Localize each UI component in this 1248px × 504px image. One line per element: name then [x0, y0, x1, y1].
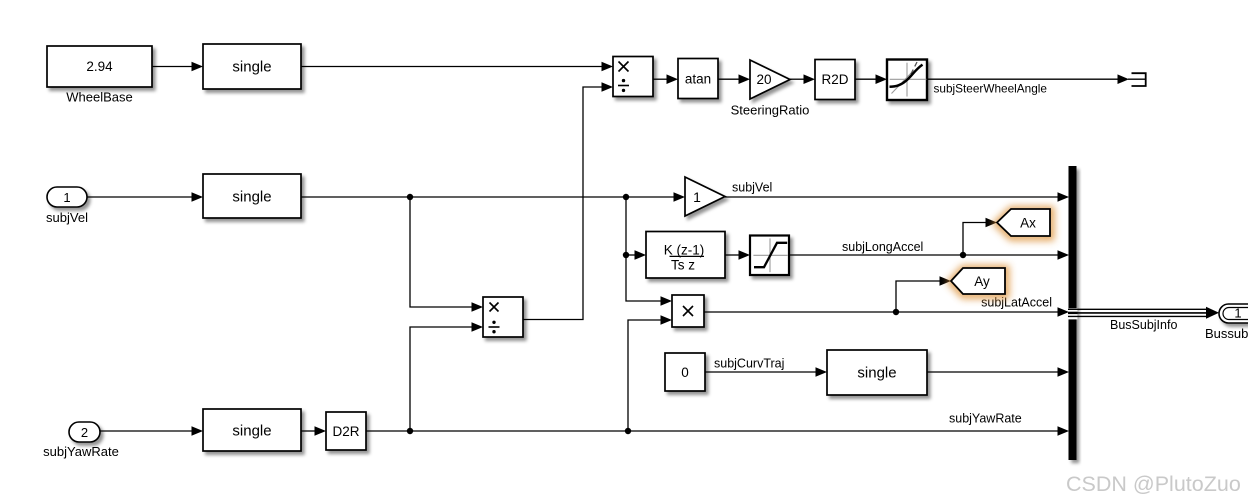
wire: constant WheelBase to single1	[152, 66, 192, 68]
saturation block	[750, 236, 789, 276]
svg-text:BussubjInfo: BussubjInfo	[1205, 326, 1248, 341]
svg-text:single: single	[857, 365, 896, 382]
wire: divide U2 output up to divide U1 divide-input	[523, 87, 602, 320]
wire: branch down to divide U2 x-input	[410, 197, 472, 307]
svg-text:BusSubjInfo: BusSubjInfo	[1110, 318, 1177, 332]
junction	[623, 194, 629, 200]
goto Ay	[952, 269, 1006, 295]
bus creator output port marker	[1068, 308, 1078, 319]
wire: branch up to goto Ax	[963, 223, 986, 256]
svg-text:1: 1	[693, 189, 701, 205]
svg-text:1: 1	[1234, 305, 1241, 320]
D2R block	[326, 412, 366, 450]
wire: saturation to bus creator, signal subjLongAccel	[789, 254, 1058, 256]
product block	[672, 295, 704, 327]
data type conversion single3	[827, 350, 927, 395]
wire: single2 to gain1 with junctions	[301, 196, 674, 198]
discrete derivative block	[646, 232, 725, 279]
outport 1 BussubjInfo	[1219, 304, 1248, 323]
goto Ax	[998, 210, 1051, 237]
svg-text:single: single	[232, 423, 271, 440]
junction	[623, 252, 629, 258]
svg-text:WheelBase: WheelBase	[66, 90, 132, 105]
svg-text:CSDN @PlutoZuo: CSDN @PlutoZuo	[1066, 472, 1241, 496]
constant 0	[665, 353, 705, 391]
wire: rate limiter to terminator, signal subjSteerWheelAngle	[927, 78, 1118, 80]
wire: atan to gain SteeringRatio	[718, 78, 739, 80]
wire: branch up to goto Ay	[896, 281, 940, 312]
svg-text:subjLongAccel: subjLongAccel	[842, 240, 923, 254]
svg-text:SteeringRatio: SteeringRatio	[731, 103, 810, 118]
junction	[960, 252, 966, 258]
wire: branch down x=626 to K block and product input	[626, 197, 661, 301]
divide U1	[613, 57, 653, 97]
wire: branch to discrete derivative	[626, 254, 635, 256]
svg-text:2: 2	[81, 425, 88, 440]
wire: single4 to D2R	[301, 430, 315, 432]
svg-text:1: 1	[63, 190, 70, 205]
wire: R2D to rate limiter	[855, 78, 876, 80]
gain SteeringRatio value 20	[750, 60, 790, 99]
svg-text:Ts z: Ts z	[671, 258, 695, 273]
svg-text:single: single	[232, 59, 271, 76]
bus creator bar	[1069, 166, 1077, 460]
wire: divide U1 to atan	[653, 78, 667, 80]
bus wire to outport, signal BusSubjInfo	[1068, 309, 1207, 316]
data type conversion single1	[203, 44, 301, 89]
wire: gain1 to bus creator, signal subjVel	[725, 196, 1058, 198]
wire: branch up to product second input	[628, 320, 661, 431]
wire: single3 to bus creator	[927, 371, 1058, 373]
data type conversion single4	[203, 409, 301, 451]
svg-text:D2R: D2R	[332, 424, 359, 439]
junction	[893, 309, 899, 315]
svg-text:subjVel: subjVel	[46, 210, 88, 225]
svg-text:subjSteerWheelAngle: subjSteerWheelAngle	[934, 82, 1048, 96]
wire: inport subjYawRate to single4	[100, 430, 192, 432]
atan block	[678, 59, 718, 99]
svg-text:single: single	[232, 189, 271, 206]
svg-text:subjYawRate: subjYawRate	[949, 412, 1022, 426]
junction	[625, 428, 631, 434]
junction	[407, 194, 413, 200]
rate limiter block	[887, 60, 927, 101]
wire: D2R to bus creator, signal subjYawRate	[366, 430, 1058, 432]
wire: gain SteeringRatio to R2D	[790, 78, 804, 80]
junction	[407, 428, 413, 434]
R2D block	[815, 60, 855, 100]
inport 2 subjYawRate	[69, 422, 100, 442]
wire: constant 0 to single3, signal subjCurvTraj	[705, 371, 816, 373]
inport 1 subjVel	[47, 187, 87, 207]
wire: discrete derivative to saturation	[725, 254, 739, 256]
terminator	[1128, 78, 1145, 80]
wire: branch up to divide U2 divide-input	[410, 327, 472, 431]
wire: product output to bus creator, signal subjLatAccel	[704, 311, 1058, 313]
svg-text:Ay: Ay	[974, 274, 990, 289]
gain1	[685, 177, 725, 216]
svg-text:Ax: Ax	[1020, 215, 1036, 230]
svg-text:subjCurvTraj: subjCurvTraj	[714, 357, 784, 371]
svg-text:20: 20	[756, 72, 771, 87]
wire: inport subjVel to single2	[87, 196, 192, 198]
svg-text:0: 0	[681, 365, 689, 380]
svg-text:subjYawRate: subjYawRate	[43, 444, 119, 459]
svg-text:subjVel: subjVel	[732, 181, 772, 195]
svg-text:K (z-1): K (z-1)	[664, 243, 705, 258]
svg-text:R2D: R2D	[821, 72, 848, 87]
svg-text:2.94: 2.94	[86, 59, 113, 74]
wire: single1 to divide U1 x-input	[301, 66, 602, 68]
data type conversion single2	[203, 174, 301, 218]
constant WheelBase value 2.94	[47, 46, 152, 87]
svg-text:atan: atan	[685, 72, 711, 87]
divide U2	[483, 297, 523, 337]
